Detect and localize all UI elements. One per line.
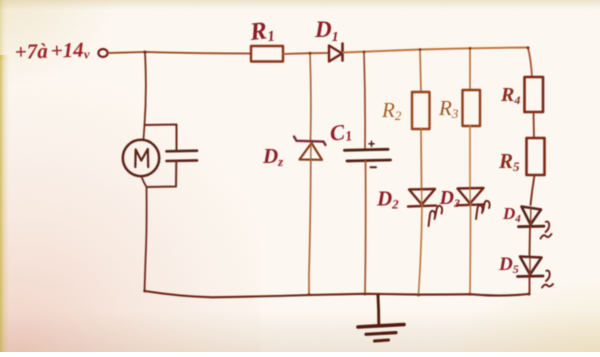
resistor R1 [251,46,283,62]
wire: zener to bottom rail [309,160,311,295]
wire: C1 branch top [364,52,365,149]
wire: C1 to bottom rail [364,161,367,294]
wire: R1 to D1 [283,53,329,54]
wire: motor branch from top rail [144,52,146,139]
LED D3 [458,188,484,204]
motor M [123,140,159,176]
wire: R3 to D3 [469,126,471,188]
resistor R2 [412,92,430,129]
wire: D4 to D5 [529,227,532,256]
wire: R5 to D4 [531,175,535,205]
wire: R2 branch top [420,50,421,93]
capacitor (motor cap) [167,149,198,152]
resistor R4 [525,77,544,112]
resistor R3 [463,90,481,126]
wire: capacitor loop top [145,125,177,151]
terminal node [98,49,107,57]
wire: R4 to R5 [533,112,536,138]
wire top rail: terminal to R1 [108,52,250,54]
LED D4 [522,207,542,225]
svg-text:+7à+14v: +7à+14v [14,37,90,64]
wire: D5 to bottom rail corner [529,276,531,295]
wire: motor to bottom rail [142,178,147,291]
wire: capacitor loop bottom [147,161,176,187]
wire: D2 to bottom rail [419,206,423,295]
capacitor C1 [345,149,389,150]
ground [377,296,381,325]
wire: R3 branch top [469,49,471,91]
wire: D1 to top-right corner [343,48,528,53]
wire bottom rail [145,291,530,297]
wire: right branch top [528,48,532,78]
diode D1 [329,46,342,62]
LED D5 [520,257,542,275]
resistor R5 [527,138,545,175]
wire: R2 to D2 [420,129,423,189]
wire: D3 to bottom rail [469,205,472,295]
zener diode Dz [294,137,326,146]
wire: zener branch top [309,53,312,140]
LED D2 [409,189,435,205]
